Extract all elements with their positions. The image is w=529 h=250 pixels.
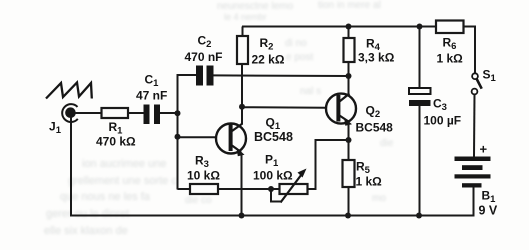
svg-text:1 kΩ: 1 kΩ [356,175,383,189]
node Q1 collector / Q2 base [239,104,245,110]
svg-text:e post: e post [286,52,313,63]
svg-text:J1: J1 [49,120,62,137]
svg-text:gerer ou le dinret: gerer ou le dinret [46,208,129,220]
node R4 bottom / C2 [346,73,352,79]
svg-text:10 kΩ: 10 kΩ [187,169,220,183]
bottom rail wire [71,215,474,217]
top rail wire right of R6 [464,26,476,28]
wire J1 down lead [70,117,72,217]
svg-text:47 nF: 47 nF [136,89,167,103]
capacitor C2 [196,66,214,86]
svg-text:le 4 nembr: le 4 nembr [224,12,267,22]
wire P1 right up to Q2 emitter [308,140,349,189]
svg-text:R6: R6 [443,36,457,53]
svg-text:470 nF: 470 nF [185,50,223,64]
svg-text:nal s: nal s [300,86,321,97]
node Q2 emitter [346,137,352,143]
svg-text:3,3 kΩ: 3,3 kΩ [358,51,395,65]
resistor R4 [344,27,355,95]
svg-text:die: die [380,138,394,149]
svg-text:1 kΩ: 1 kΩ [437,52,464,66]
node C1/C2 junction [175,110,181,116]
node C3 / rail [416,213,422,219]
svg-text:elle six klaxon de: elle six klaxon de [44,225,128,237]
svg-text:Q2: Q2 [366,104,381,121]
resistor R1 [102,108,129,118]
wire R2 bottom to Q1 collector [241,64,243,124]
switch S1 [472,73,482,156]
bleed-through ghost text left block [44,158,177,237]
svg-text:100 kΩ: 100 kΩ [253,169,293,183]
resistor R6 [436,21,464,34]
svg-text:R2: R2 [260,36,274,53]
resistor R5 [343,160,355,217]
svg-text:C3: C3 [433,97,447,114]
node R5 / rail [345,213,351,219]
svg-text:ion aucrimee une: ion aucrimee une [82,158,166,170]
sawtooth waveform icon [46,83,92,99]
battery B1 [455,157,491,217]
svg-text:di no: di no [285,38,307,49]
svg-text:mo: mo [372,193,386,204]
svg-text:100 µF: 100 µF [424,114,462,128]
node P1 left [268,186,274,192]
svg-text:470 kΩ: 470 kΩ [96,135,136,149]
svg-text:22 kΩ: 22 kΩ [252,53,285,67]
node R4 top [346,24,352,30]
wire Q1 emitter down [241,153,243,217]
wire C1 to node [160,112,178,114]
svg-text:BC548: BC548 [356,120,394,134]
wire S1 drop [474,26,476,74]
wire R1 to C1 [128,112,144,114]
svg-text:die co: die co [185,195,212,206]
wire Q2 emitter down [348,122,350,160]
wire node to Q1 base [178,136,218,138]
capacitor C1 [144,105,161,125]
transistor Q2 [326,94,356,126]
svg-text:P1: P1 [265,153,279,170]
resistor R3 [178,184,219,194]
svg-text:que nous ne les fa: que nous ne les fa [60,191,151,203]
bleed-through ghost text top strip [217,0,381,22]
node C3 top [417,24,423,30]
svg-text:C2: C2 [198,34,212,51]
resistor R2 [237,27,248,65]
node Q1 emitter / rail [239,213,245,219]
svg-text:grellement une sorte c: grellement une sorte c [68,175,177,187]
svg-text:tion in mere al: tion in mere al [318,0,381,11]
jack J1 [62,104,78,122]
transistor Q1 [216,124,246,157]
svg-text:S1: S1 [483,68,497,85]
svg-text:neunesctne lemo: neunesctne lemo [217,1,294,12]
node Q1 base junction [175,134,181,140]
wire R3 to P1 [218,188,280,190]
svg-text:9 V: 9 V [479,204,498,218]
wire C2 left lead [177,74,197,76]
svg-text:+: + [480,142,488,157]
svg-text:BC548: BC548 [254,130,293,144]
wire vertical node column [177,75,179,190]
wire node to Q2 base [242,106,327,109]
potentiometer P1 [270,169,308,203]
wire C2 right to R4 bottom [214,74,349,77]
bleed-through ghost text centre bits [185,38,394,206]
wire J1 to R1 [75,112,102,114]
svg-text:C1: C1 [145,73,160,90]
capacitor C3 [409,27,431,217]
top rail wire [242,26,436,28]
